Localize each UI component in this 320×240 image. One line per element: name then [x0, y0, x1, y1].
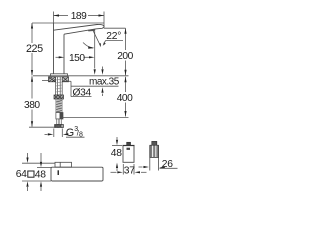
plan view dimension arrows 48	[40, 153, 42, 162]
spray angle reference vertical line	[94, 31, 96, 69]
control box front view	[123, 146, 134, 163]
svg-text:150: 150	[69, 53, 85, 64]
hose end fitting	[56, 113, 63, 120]
svg-text:26: 26	[162, 159, 173, 170]
dimension 189 line	[54, 15, 69, 17]
dimension 225 line	[31, 23, 33, 43]
water stream line 22 degrees	[93, 31, 100, 46]
svg-text:64: 64	[16, 169, 27, 180]
dimension 26 underline	[160, 167, 178, 169]
svg-text:200: 200	[117, 51, 133, 62]
dimension 150 line	[56, 56, 60, 58]
square symbol	[28, 171, 34, 177]
dimension 37 line and arrows	[111, 171, 117, 173]
G 3/8 thread extension lines	[53, 129, 55, 138]
plan view extension lines	[22, 162, 55, 164]
dimension 150 arrows	[59, 56, 64, 58]
G 3/8 text	[66, 126, 83, 139]
faucet body outline	[54, 23, 105, 74]
dimension 225 top extension line	[32, 22, 104, 24]
hose end nut	[55, 125, 64, 128]
svg-text:400: 400	[117, 93, 133, 104]
dimension 48 control box	[116, 137, 118, 140]
counter top line left	[33, 75, 51, 77]
svg-text:37: 37	[124, 165, 135, 176]
dimension 26 arrows	[139, 166, 143, 168]
svg-text:22°: 22°	[106, 31, 121, 42]
faucet spout outlet	[88, 29, 96, 32]
svg-text:8: 8	[79, 132, 83, 139]
svg-text:189: 189	[71, 11, 87, 22]
plan view faucet body	[51, 167, 103, 181]
counter top line right	[68, 75, 129, 77]
mounting washers hatched	[49, 77, 69, 82]
svg-text:48: 48	[111, 148, 122, 159]
threaded shank	[56, 77, 63, 95]
lower fixing nut hatched	[54, 95, 64, 99]
plan view dimension arrows 64	[27, 153, 29, 158]
control box front interior dash	[127, 148, 131, 150]
G 3/8 arrows	[45, 133, 48, 135]
control box side striped upper part	[150, 145, 159, 157]
control box side view	[149, 145, 151, 170]
svg-text:48: 48	[35, 170, 46, 181]
dimension 189 extension line right	[103, 12, 105, 28]
plan view aerator tick	[58, 170, 60, 175]
max.35 lower reference line	[71, 85, 119, 87]
svg-text:Ø34: Ø34	[73, 87, 92, 98]
svg-text:225: 225	[26, 43, 43, 55]
counter bottom line left	[42, 80, 51, 82]
dimension 225 arrows	[31, 23, 33, 29]
diameter 34 leader	[64, 80, 71, 82]
dimension 380 bottom reference line	[29, 126, 55, 128]
svg-text:max.35: max.35	[89, 77, 120, 88]
dimension 400 bottom reference line	[63, 117, 129, 119]
dimension 189 extension line left	[53, 12, 55, 24]
svg-text:380: 380	[24, 100, 40, 111]
dimension 189 arrows	[54, 14, 60, 16]
dimension 380 line	[31, 76, 33, 98]
dimension 400 line	[125, 77, 127, 92]
faucet base plate	[51, 74, 68, 76]
control box side tab	[152, 141, 157, 145]
supply hose column	[56, 99, 62, 113]
dimension 200 arrows	[124, 28, 126, 34]
dimension 200 reference line top	[104, 27, 126, 29]
angle leader arrow from 22 text	[106, 39, 123, 41]
dimension 400 arrows	[124, 77, 126, 83]
dimension 37 extension lines	[122, 164, 124, 175]
svg-text:G: G	[66, 127, 74, 139]
dimension 380 arrows	[31, 76, 33, 82]
max.35 arrows	[102, 67, 104, 70]
G 3/8 label underline	[66, 136, 85, 138]
angle arc arrow	[83, 43, 93, 49]
threaded nipple G3/8	[57, 119, 62, 125]
control box front tab	[127, 142, 131, 145]
plan view sensor window	[55, 162, 72, 167]
dimension 200 line	[125, 28, 127, 50]
